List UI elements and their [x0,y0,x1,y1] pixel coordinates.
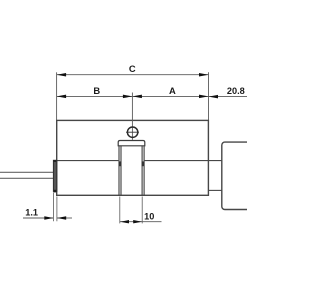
arrowhead C right [199,73,209,77]
extension line left (x=56.6) [56,72,58,120]
arrowhead 1.1 right [57,216,66,219]
svg-text:C: C [129,63,136,74]
svg-text:20.8: 20.8 [227,86,245,96]
arrowhead B right [123,95,132,99]
cam slot right outer wall [143,146,145,196]
extension line middle (x=132.4 through screw hole) [131,93,133,140]
dimension 20.8 line [209,96,248,98]
extension line 10 right [141,197,143,224]
thumbturn knob [222,142,254,209]
end cap dark top end [54,160,57,162]
extension line 10 left [119,197,121,224]
extension line right (x=208.5) [208,72,210,120]
extension line 1.1 right (housing face) [56,197,58,222]
dimension 1.1 right stub [57,217,72,219]
dimension 10 leader line [142,221,161,223]
screw hole circle [127,127,137,137]
tick mark right wall [142,161,145,166]
svg-text:A: A [169,85,176,96]
cam slot left outer wall [118,146,120,196]
tick mark left wall [119,161,122,166]
arrowhead A left [132,95,142,99]
arrowhead 10 left [120,220,129,223]
dimension 1.1 leader line [23,217,53,219]
neck bottom line [208,189,221,191]
arrowhead 1.1 left [44,216,53,219]
tailpiece rod top line [0,171,54,173]
screw hole horizontal tick [126,131,139,133]
cam left face [120,146,122,196]
dimension A line [132,95,208,97]
svg-text:10: 10 [144,211,154,221]
arrowhead C left [57,73,67,77]
arrowhead A right [199,95,209,99]
end cap dark bottom end [54,190,57,193]
dimension B line [57,95,133,97]
cam slot top bar [118,141,145,146]
tailpiece rod bottom line [0,177,54,179]
dimension C line [57,74,209,76]
arrowhead 20.8 [209,95,219,99]
plug middle line left segment [57,160,119,162]
end cap dark strip [53,160,56,191]
extension line 1.1 left (cap face) [52,193,54,222]
cam right face [141,146,143,196]
svg-text:1.1: 1.1 [25,207,38,217]
dimension 10 line [120,221,142,223]
svg-text:B: B [93,85,100,96]
arrowhead 10 right [133,220,142,223]
cylinder housing body [57,120,209,195]
plug middle line right segment to knob [145,160,222,162]
arrowhead B left [57,95,67,99]
